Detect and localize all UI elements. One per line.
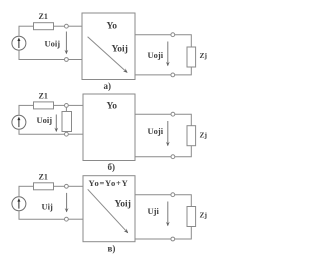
svg-text:Uoji: Uoji (148, 126, 164, 136)
wire top-left to Z1 (a) (19, 25, 34, 27)
svg-text:б): б) (108, 162, 116, 172)
wire box to terminal bottom-right (v) (135, 238, 171, 240)
svg-text:Yo: Yo (107, 22, 118, 32)
current source J (a) (12, 36, 26, 50)
wire box to terminal top-right (b) (135, 113, 171, 115)
terminal bottom-left (v) (65, 217, 69, 221)
wire source top vertical (b) (18, 105, 20, 115)
impedance Z1 (a) (34, 23, 54, 30)
wire source bottom vertical (v) (18, 211, 20, 220)
impedance Z1 (b) (34, 102, 54, 109)
wire source top vertical (a) (18, 26, 20, 36)
wire top-left to Z1 (v) (19, 185, 34, 187)
svg-text:Uij: Uij (42, 202, 54, 212)
svg-text:Uji: Uji (148, 206, 160, 216)
terminal top-left (v) (65, 184, 69, 188)
svg-text:Zj: Zj (200, 211, 208, 220)
wire bottom-left (a) (19, 59, 65, 61)
wire box to terminal top-right (a) (135, 34, 171, 36)
wire terminal to box bottom (a) (68, 59, 82, 61)
terminal top-right (v) (171, 193, 175, 197)
wire Zj to bottom corner (a) (175, 67, 192, 75)
terminal bottom-left (a) (65, 58, 69, 62)
wire Z1 to terminal (a) (54, 25, 65, 27)
wire terminal to box bottom (b) (68, 133, 83, 135)
wire terminal to box top (b) (68, 104, 83, 106)
voltage arrow Uji (v) (166, 202, 170, 227)
svg-text:Z1: Z1 (39, 172, 48, 181)
wire shunt bottom to terminal (b) (65, 131, 67, 134)
shunt impedance rect (b) (62, 112, 72, 132)
wire terminal to shunt top (b) (65, 107, 67, 111)
impedance Z1 (v) (34, 183, 54, 190)
svg-text:Z1: Z1 (39, 91, 48, 100)
terminal top-left (b) (65, 104, 69, 108)
terminal bottom-right (a) (171, 73, 175, 77)
wire terminal to box bottom (v) (68, 218, 83, 220)
wire source bottom vertical (a) (18, 50, 20, 59)
wire source top vertical (v) (18, 186, 20, 197)
wire terminal to corner top-right (v) (175, 195, 192, 207)
terminal bottom-right (b) (171, 155, 175, 159)
wire Z1 to terminal (v) (54, 185, 65, 187)
voltage arrow Uoji (b) (166, 121, 170, 146)
terminal top-left (a) (65, 24, 69, 28)
wire terminal to corner top-right (a) (175, 35, 192, 47)
terminal top-right (a) (171, 33, 175, 37)
current source J (v) (12, 197, 26, 211)
wire Zj to bottom corner (v) (175, 227, 192, 240)
svg-text:Zj: Zj (200, 51, 208, 60)
transfer arrow inside box (a) (88, 37, 129, 75)
svg-text:Uoij: Uoij (37, 115, 53, 125)
voltage arrow Uoij (a) (65, 32, 69, 55)
svg-text:Yo: Yo (107, 101, 118, 111)
wire terminal to box top (a) (68, 25, 82, 27)
svg-text:Yo=Yo+Y: Yo=Yo+Y (89, 178, 129, 188)
two-port network box Yo (a) (82, 13, 135, 80)
wire Zj to bottom corner (b) (175, 146, 192, 157)
load impedance Zj (v) (187, 207, 196, 227)
svg-text:Uoji: Uoji (148, 50, 164, 60)
wire box to terminal bottom-right (b) (135, 156, 171, 158)
svg-text:в): в) (108, 244, 116, 254)
wire source bottom vertical (b) (18, 129, 20, 134)
load impedance Zj (a) (187, 47, 196, 67)
wire terminal to corner top-right (b) (175, 114, 192, 126)
svg-text:Z1: Z1 (39, 12, 48, 21)
svg-text:Yoij: Yoij (115, 199, 131, 209)
wire box to terminal top-right (v) (135, 194, 171, 196)
terminal bottom-left (b) (65, 132, 69, 136)
wire bottom-left (b) (19, 133, 65, 135)
wire bottom-left (v) (19, 218, 65, 220)
two-port network box Yo=Yo+Y (v) (83, 176, 135, 242)
svg-text:Uoij: Uoij (45, 38, 61, 48)
terminal bottom-right (v) (171, 237, 175, 241)
current source J (b) (12, 115, 26, 129)
two-port network box Yo (b) (83, 94, 135, 161)
svg-text:а): а) (104, 81, 112, 91)
svg-text:Zj: Zj (200, 131, 208, 140)
voltage arrow Uoij (b) (54, 115, 58, 133)
voltage arrow Uoji (a) (166, 42, 170, 67)
voltage arrow Uij (v) (65, 193, 69, 213)
load impedance Zj (b) (187, 126, 196, 146)
wire top-left to Z1 (b) (19, 104, 34, 106)
wire Z1 to terminal (b) (54, 104, 65, 106)
svg-text:Yoij: Yoij (112, 44, 128, 54)
transfer arrow inside box (v) (88, 189, 130, 234)
wire terminal to box top (v) (68, 185, 83, 187)
terminal top-right (b) (171, 112, 175, 116)
wire box to terminal bottom-right (a) (135, 74, 171, 76)
